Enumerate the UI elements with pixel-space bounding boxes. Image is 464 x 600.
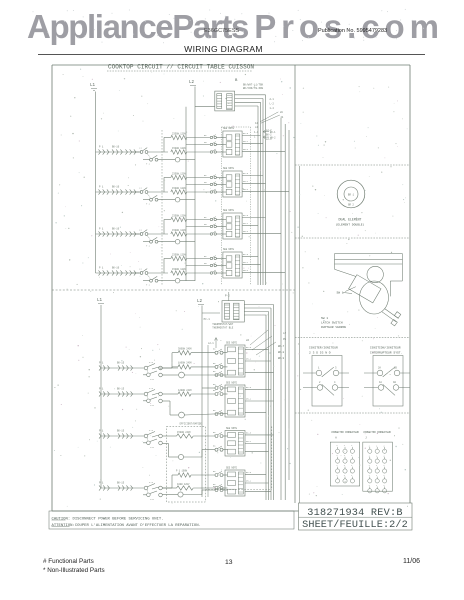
leader SW 1: [337, 287, 356, 295]
switch SW3 contacts top: [364, 367, 410, 377]
surface element E4 (left coil): [99, 267, 109, 276]
node L2 (upper): [189, 81, 196, 86]
svg-text:2: 2: [383, 474, 384, 477]
svg-text:1-4: 1-4: [270, 107, 275, 110]
title: cooktop circuit: [107, 64, 254, 72]
wires connector P2 to bus: [242, 172, 289, 191]
svg-text:100W 120V: 100W 120V: [177, 483, 190, 486]
svg-text:BK/WHT-L1/TBK: BK/WHT-L1/TBK: [243, 83, 264, 87]
node L1 (upper): [90, 84, 97, 91]
wire riser to upper element row 1: [164, 138, 171, 153]
wire riser to upper element row 3: [164, 220, 171, 235]
connector P8 (lower): [225, 467, 245, 497]
svg-text:P 2: P 2: [146, 203, 151, 206]
wires terminal block to bus (lower): [244, 305, 273, 316]
surface element E4b (right coil): [112, 267, 136, 276]
svg-text:BR 1: BR 1: [348, 193, 355, 196]
svg-text:P 1: P 1: [99, 362, 104, 365]
wire lamp to L2 bus row 1: [180, 159, 195, 161]
wire R8a to connector: [191, 474, 215, 476]
contact pair row 2 pin2: [204, 181, 216, 186]
wire into pin2 row 4: [216, 265, 226, 267]
switch SW2 contacts top: [303, 367, 349, 377]
svg-text:2350W 120V: 2350W 120V: [172, 215, 186, 218]
svg-text:BK-3: BK-3: [243, 132, 249, 135]
element resistor R3a: [171, 215, 187, 222]
svg-text:IGNITION/IGNITEUR: IGNITION/IGNITEUR: [370, 346, 401, 350]
svg-text:1A: 1A: [379, 381, 382, 384]
svg-text:BK-8: BK-8: [278, 351, 285, 354]
contact pair pin1 row 8: [213, 470, 223, 477]
wire switch pole1 out row 1: [148, 151, 168, 153]
label thermostat note: [212, 323, 234, 330]
arrow up L2-1: [208, 338, 218, 349]
element resistor R1a: [171, 133, 187, 140]
svg-text:OR: OR: [204, 141, 207, 144]
wire into pin3 row 7: [223, 449, 228, 451]
svg-text:3000W 240V: 3000W 240V: [178, 348, 192, 351]
connector J pin grid: [363, 442, 393, 493]
svg-text:OR-2: OR-2: [246, 440, 252, 443]
svg-text:SW 1: SW 1: [337, 292, 344, 295]
svg-text:2: 2: [376, 474, 377, 477]
wire R2a to contact: [187, 177, 210, 179]
contact pair row 1 pin3: [210, 149, 216, 153]
label igniter switch (left): [309, 346, 338, 355]
wire switch pole2 out row 4: [158, 280, 175, 282]
svg-text:2: 2: [383, 464, 384, 467]
svg-text:WH-4: WH-4: [243, 148, 249, 151]
part number box: [299, 503, 413, 531]
wire into pin2 row 2: [216, 184, 226, 186]
wire R8b to connector: [193, 487, 215, 489]
switch SW3 contacts bottom: [364, 381, 410, 395]
svg-text:2: 2: [376, 464, 377, 467]
lower aux vertical: [207, 345, 209, 497]
surface burner element B6: [99, 388, 133, 397]
svg-text:BK-10: BK-10: [112, 228, 120, 231]
svg-text:BK-10: BK-10: [112, 146, 120, 149]
valve switch V8 pole 1: [144, 481, 162, 490]
svg-text:BK-3: BK-3: [246, 471, 252, 474]
svg-text:BK: BK: [213, 348, 216, 351]
infinite switch S1 pole 2: [143, 154, 158, 166]
svg-text:2: 2: [383, 484, 384, 487]
svg-text:OR-2: OR-2: [243, 140, 249, 143]
surface burner element B7: [99, 430, 133, 439]
svg-text:BK: BK: [213, 431, 216, 434]
stub from L2 to pin1 row 6: [202, 387, 215, 389]
svg-text:OR-2: OR-2: [246, 398, 252, 401]
svg-text:2: 2: [376, 454, 377, 457]
svg-text:2 3 D IG N O: 2 3 D IG N O: [309, 352, 331, 355]
stub bus to pin2 row 1: [186, 144, 210, 146]
terminal block B (upper supply): [215, 79, 238, 111]
indicator lamp DS4: [175, 278, 180, 283]
svg-text:P 2: P 2: [146, 245, 151, 248]
switch SW2 (left) box: [312, 356, 342, 407]
contact pair pin3 row 6: [213, 409, 223, 416]
svg-text:OR-2: OR-2: [243, 261, 249, 264]
svg-text:1-4: 1-4: [149, 429, 154, 432]
svg-text:IGNITER/IGNITEUR: IGNITER/IGNITEUR: [309, 346, 338, 350]
svg-text:24: 24: [281, 116, 284, 119]
svg-text:COOKTOP CIRCUIT // CIRCUIT TAB: COOKTOP CIRCUIT // CIRCUIT TABLE CUISSON: [108, 64, 254, 71]
svg-text:BK-10: BK-10: [112, 186, 120, 189]
svg-text:1: 1: [351, 464, 353, 467]
svg-text:CAUTION: DISCONNECT POWER BEFO: CAUTION: DISCONNECT POWER BEFORE SERVICI…: [52, 517, 164, 521]
svg-text:OR-2: OR-2: [243, 180, 249, 183]
wire feed from L1 row 6: [101, 393, 144, 395]
indicator lamp DS7: [162, 444, 183, 460]
element resistor R2a: [171, 173, 187, 180]
contact pair pin2 row 6: [213, 389, 223, 396]
indicator lamp DS8: [162, 492, 183, 497]
svg-text:BK-10: BK-10: [112, 267, 120, 270]
svg-text:P-2: P-2: [225, 295, 230, 298]
svg-text:L22: L22: [150, 498, 155, 501]
svg-text:L2: L2: [189, 81, 195, 85]
svg-text:2350W 120V: 2350W 120V: [172, 254, 186, 257]
svg-text:L22: L22: [150, 378, 155, 381]
svg-text:L-2: L-2: [270, 103, 275, 106]
svg-text:CONNECTOR CONNECTEUR: CONNECTOR CONNECTEUR: [331, 431, 359, 434]
wire into pin3 row 3: [216, 233, 226, 235]
surface element E1b (right coil): [112, 146, 136, 155]
svg-text:L2: L2: [197, 300, 203, 304]
svg-text:1500W 120V: 1500W 120V: [172, 229, 186, 232]
svg-text:SEE NOTE: SEE NOTE: [223, 127, 235, 130]
wire element to switch row 2: [132, 191, 141, 193]
stub bus to pin2 row 3: [186, 226, 210, 228]
wire R5a to connector: [191, 352, 215, 354]
wire into pin3 row 2: [216, 191, 226, 193]
connector P2: [223, 167, 242, 197]
svg-text:2350W 120V: 2350W 120V: [172, 173, 186, 176]
dashed separator between circuits: [52, 289, 295, 291]
svg-text:2A: 2A: [378, 367, 381, 370]
svg-text:BK: BK: [204, 134, 207, 137]
inline resistor R7: [162, 431, 193, 438]
svg-text:BK: BK: [213, 370, 216, 373]
bus tick arrows: [263, 130, 276, 139]
node L1 (lower): [97, 299, 104, 304]
svg-text:1: 1: [344, 474, 346, 477]
svg-text:L1: L1: [139, 268, 142, 271]
svg-text:2: 2: [376, 444, 377, 447]
dashed boundary upper: [161, 130, 163, 286]
infinite switch S1 pole 1: [139, 147, 148, 154]
wire riser row 8: [162, 475, 178, 488]
svg-text:1: 1: [336, 444, 338, 447]
svg-text:BK: BK: [213, 445, 216, 448]
svg-text:L: L: [254, 136, 256, 139]
svg-text:2: 2: [369, 454, 370, 457]
wire into pin3 row 8: [223, 489, 228, 491]
surface burner element B5: [99, 362, 133, 371]
contact pair row 1 pin1: [204, 134, 216, 139]
contact pair pin1 row 5: [213, 348, 223, 355]
wire lamp row 7 to box: [184, 450, 215, 457]
contact pair row 2 pin3: [210, 189, 216, 193]
element resistor R2b inline: [171, 187, 187, 194]
wire R1b to contact: [187, 151, 210, 153]
wire R1a to contact: [187, 137, 210, 139]
wire switch pole2 out row 1: [158, 159, 175, 161]
svg-text:P 1: P 1: [99, 430, 104, 433]
svg-text:1-4: 1-4: [149, 387, 154, 390]
wire into box row 7: [223, 435, 228, 437]
svg-text:A-1: A-1: [270, 98, 275, 101]
contact pair pin3 row 8: [213, 485, 223, 492]
wire R4b to contact: [187, 272, 210, 274]
svg-text:EFFICIENT/RAPIDE: EFFICIENT/RAPIDE: [180, 423, 203, 426]
svg-text:1500W 240V: 1500W 240V: [177, 431, 191, 434]
svg-text:2: 2: [369, 474, 370, 477]
svg-text:DUAL ELEMENT: DUAL ELEMENT: [339, 218, 362, 222]
wire into pin2 row 3: [216, 226, 226, 228]
contact pair pin1 row 6: [213, 383, 223, 390]
wire switch pole1 out row 3: [148, 233, 168, 235]
svg-text:3: 3: [335, 367, 337, 370]
element resistor R3b inline: [171, 229, 187, 236]
wire into pin1 row 1: [216, 137, 226, 139]
wire into box row 6: [223, 393, 228, 395]
svg-text:1: 1: [336, 474, 338, 477]
label connector J: [363, 431, 391, 440]
svg-text:2: 2: [369, 464, 370, 467]
label: dual element: [336, 218, 365, 227]
wire R5b to connector: [191, 366, 215, 368]
wire lamp to L2 bus row 2: [180, 199, 195, 201]
wire riser to upper element row 2: [164, 178, 171, 193]
svg-text:L1: L1: [139, 147, 142, 150]
wire R3b to contact: [187, 233, 210, 235]
svg-text:BK-15: BK-15: [117, 430, 125, 433]
wire lamp row 8 to box: [183, 490, 215, 495]
svg-text:P 2: P 2: [146, 284, 151, 287]
svg-text:1: 1: [336, 464, 338, 467]
wire L1 vertical bus (upper): [95, 92, 97, 274]
infinite switch S3 pole 2: [143, 236, 158, 248]
svg-text:2350W 120V: 2350W 120V: [172, 133, 186, 136]
wire L2 inner bus (upper): [185, 107, 187, 281]
wire lamp to L2 bus row 4: [180, 280, 195, 282]
svg-text:J: J: [365, 437, 367, 440]
svg-text:BK/CRN/TW-ORG: BK/CRN/TW-ORG: [243, 86, 264, 90]
svg-text:WH-4: WH-4: [243, 230, 249, 233]
wire feed from L1 row 8: [101, 487, 144, 489]
inline resistor R8b: [162, 483, 193, 490]
wire into pin1 row 8: [223, 474, 228, 476]
contact pair row 4 pin1: [204, 255, 216, 260]
svg-text:1500W 120V: 1500W 120V: [172, 268, 186, 271]
svg-text:L1: L1: [97, 299, 103, 303]
igniter mount plate (tilted): [349, 275, 381, 303]
contact pair pin1 row 7: [213, 431, 223, 438]
indicator lamp DS1: [175, 157, 180, 162]
svg-text:OR-2: OR-2: [243, 222, 249, 225]
wire into pin1 row 4: [216, 258, 226, 260]
svg-text:BK: BK: [213, 470, 216, 473]
svg-text:1: 1: [318, 367, 320, 370]
panel: connector pinouts: [295, 412, 410, 414]
dual element symbol: [337, 180, 365, 208]
svg-text:1: 1: [344, 454, 346, 457]
svg-text:BR 2: BR 2: [348, 204, 354, 207]
svg-text:BK-1: BK-1: [270, 131, 276, 134]
svg-text:P 1: P 1: [99, 267, 104, 270]
wire feed from L1 row 2: [96, 191, 140, 193]
wire into pin2 row 5: [223, 366, 228, 368]
wire switch pole2 out row 3: [158, 241, 175, 243]
infinite switch S4 pole 2: [143, 275, 158, 287]
contact pair pin2 row 5: [213, 362, 223, 369]
element resistor R1b inline: [171, 147, 187, 154]
wire into box row 8: [223, 487, 228, 489]
svg-text:BK-3: BK-3: [246, 346, 252, 349]
svg-text:OR: OR: [204, 181, 207, 184]
indicator lamp DS6: [162, 401, 184, 418]
wire feed from L1 row 5: [101, 367, 144, 369]
svg-text:BK-15: BK-15: [117, 362, 125, 365]
svg-text:SEE NOTE: SEE NOTE: [223, 209, 235, 212]
svg-text:L1: L1: [139, 229, 142, 232]
svg-text:1: 1: [351, 454, 353, 457]
svg-text:2: 2: [383, 444, 384, 447]
wire into pin1 row 6: [223, 387, 228, 389]
svg-text:SEE NOTE: SEE NOTE: [223, 167, 235, 170]
surface element E3 (left coil): [99, 228, 109, 237]
label latch switch: [321, 317, 346, 329]
surface element E2b (right coil): [112, 186, 136, 195]
dashed harness boundary (upper connector column): [222, 127, 251, 285]
svg-text:WH-4: WH-4: [243, 188, 249, 191]
infinite switch S4 pole 1: [139, 268, 148, 275]
svg-text:OR: OR: [204, 262, 207, 265]
svg-text:BK: BK: [204, 255, 207, 258]
svg-text:1: 1: [344, 464, 346, 467]
svg-text:1: 1: [336, 454, 338, 457]
inline resistor R6: [162, 389, 192, 396]
svg-text:BK-3: BK-3: [243, 172, 249, 175]
element resistor R4b inline: [171, 268, 187, 275]
svg-text:L1: L1: [90, 84, 96, 88]
valve switch V6 pole 2: [143, 396, 162, 407]
svg-text:1-4: 1-4: [149, 361, 154, 364]
svg-text:P6: P6: [283, 338, 287, 341]
wires connector P3 to bus: [242, 214, 281, 233]
wire switch pole1 out row 4: [148, 272, 168, 274]
surface element E2 (left coil): [99, 186, 109, 195]
svg-text:BK-3: BK-3: [246, 386, 252, 389]
svg-text:BK-7: BK-7: [278, 345, 285, 348]
svg-text:A: A: [335, 437, 337, 440]
panel: igniter switches: [295, 337, 410, 339]
wire feed from L1 row 3: [96, 233, 140, 235]
svg-text:L1: L1: [139, 187, 142, 190]
wire element to switch row 4: [132, 272, 141, 274]
svg-text:2A: 2A: [246, 339, 250, 342]
indicator lamp DS2: [175, 197, 180, 202]
label: supply wire colors: [243, 83, 264, 91]
svg-text:2: 2: [383, 454, 384, 457]
wire into pin1 row 5: [223, 352, 228, 354]
surface element E1 (left coil): [99, 146, 109, 155]
svg-text:SW 1: SW 1: [321, 317, 328, 320]
connector P5 (lower): [225, 342, 245, 378]
connector A pin grid: [330, 442, 359, 486]
valve switch V5 pole 1: [144, 361, 162, 370]
svg-text:RUPTEUR VERROU: RUPTEUR VERROU: [321, 326, 346, 329]
svg-text:BK-3: BK-3: [243, 214, 249, 217]
svg-text:BK-3: BK-3: [243, 253, 249, 256]
svg-text:P 1: P 1: [99, 388, 104, 391]
svg-text:P 1 100W: P 1 100W: [176, 470, 188, 473]
valve switch V8 pole 2: [143, 490, 162, 501]
svg-text:BK: BK: [204, 174, 207, 177]
contact pair row 3 pin3: [210, 231, 216, 235]
svg-text:1: 1: [351, 474, 353, 477]
svg-text:SEE NOTE: SEE NOTE: [226, 382, 238, 385]
svg-text:1: 1: [351, 444, 353, 447]
wire feed from L1 row 4: [96, 272, 140, 274]
svg-text:LATCH SWITCH: LATCH SWITCH: [321, 322, 343, 325]
inline resistor R5b: [159, 362, 192, 370]
svg-text:SEE NOTE: SEE NOTE: [226, 342, 238, 345]
surface burner element B8: [99, 482, 133, 491]
connector P4: [223, 248, 242, 278]
switch SW2 contacts bottom: [303, 381, 349, 395]
svg-text:L2: L2: [283, 332, 287, 335]
caution box: [49, 511, 294, 529]
svg-text:2A: 2A: [280, 111, 283, 114]
bus verticals (lower right): [266, 305, 274, 501]
connector P1: [223, 127, 242, 157]
surface element E3b (right coil): [112, 228, 136, 237]
connector P3: [223, 209, 242, 239]
svg-text:1800W 240V: 1800W 240V: [178, 362, 192, 365]
svg-text:P 1: P 1: [99, 228, 104, 231]
svg-text:318271934 REV:B: 318271934 REV:B: [307, 508, 402, 519]
svg-text:BK-15: BK-15: [117, 388, 125, 391]
svg-text:1200W 240V: 1200W 240V: [178, 389, 192, 392]
wire R4a to contact: [187, 258, 210, 260]
wire into pin1 row 2: [216, 177, 226, 179]
contact pair row 2 pin1: [204, 174, 216, 179]
svg-text:1500W 120V: 1500W 120V: [172, 187, 186, 190]
svg-text:BK: BK: [204, 216, 207, 219]
valve switch V7 pole 2: [143, 438, 162, 449]
svg-text:SHEET/FEUILLE:2/2: SHEET/FEUILLE:2/2: [302, 519, 408, 531]
svg-text:1: 1: [344, 444, 346, 447]
svg-text:(ELEMENT DOUBLE): (ELEMENT DOUBLE): [336, 223, 365, 227]
wire R6 to connector: [191, 393, 215, 395]
svg-text:1B: 1B: [393, 381, 396, 384]
wire R2b to contact: [187, 191, 210, 193]
element resistor R4a: [171, 254, 187, 261]
wire riser row 5: [162, 353, 178, 368]
wire R7 to connector: [193, 435, 215, 437]
annotation leaders to bus (upper): [254, 98, 284, 141]
contact pair row 4 pin2: [204, 262, 216, 267]
contact pair pin2 row 8: [213, 483, 223, 490]
svg-text:2: 2: [319, 381, 321, 384]
wire L2 drop to terminal block: [195, 87, 215, 282]
wire into pin2 row 1: [216, 144, 226, 146]
svg-text:PC-1: PC-1: [204, 318, 211, 321]
contact pair pin3 row 7: [213, 445, 223, 452]
